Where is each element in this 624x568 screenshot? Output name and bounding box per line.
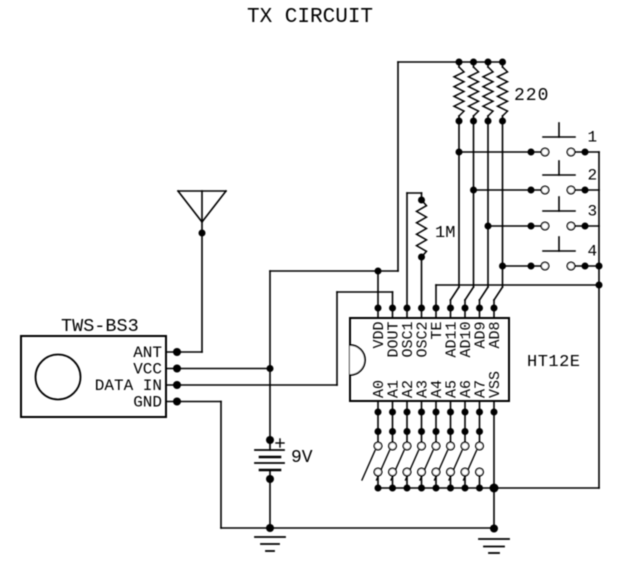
svg-text:GND: GND: [133, 394, 162, 412]
svg-text:VCC: VCC: [133, 361, 162, 379]
svg-text:9V: 9V: [291, 448, 313, 468]
svg-text:VSS: VSS: [487, 371, 504, 398]
svg-text:3: 3: [588, 203, 598, 221]
svg-text:220: 220: [514, 86, 549, 106]
svg-text:1M: 1M: [435, 224, 455, 243]
svg-text:ANT: ANT: [133, 344, 162, 362]
svg-text:DATA IN: DATA IN: [95, 377, 162, 395]
svg-text:4: 4: [588, 243, 598, 261]
svg-text:AD8: AD8: [487, 322, 504, 349]
svg-text:HT12E: HT12E: [527, 353, 581, 372]
svg-text:2: 2: [588, 167, 598, 185]
svg-text:TWS-BS3: TWS-BS3: [61, 316, 139, 337]
svg-text:TX CIRCUIT: TX CIRCUIT: [247, 6, 373, 29]
svg-text:1: 1: [588, 129, 598, 147]
